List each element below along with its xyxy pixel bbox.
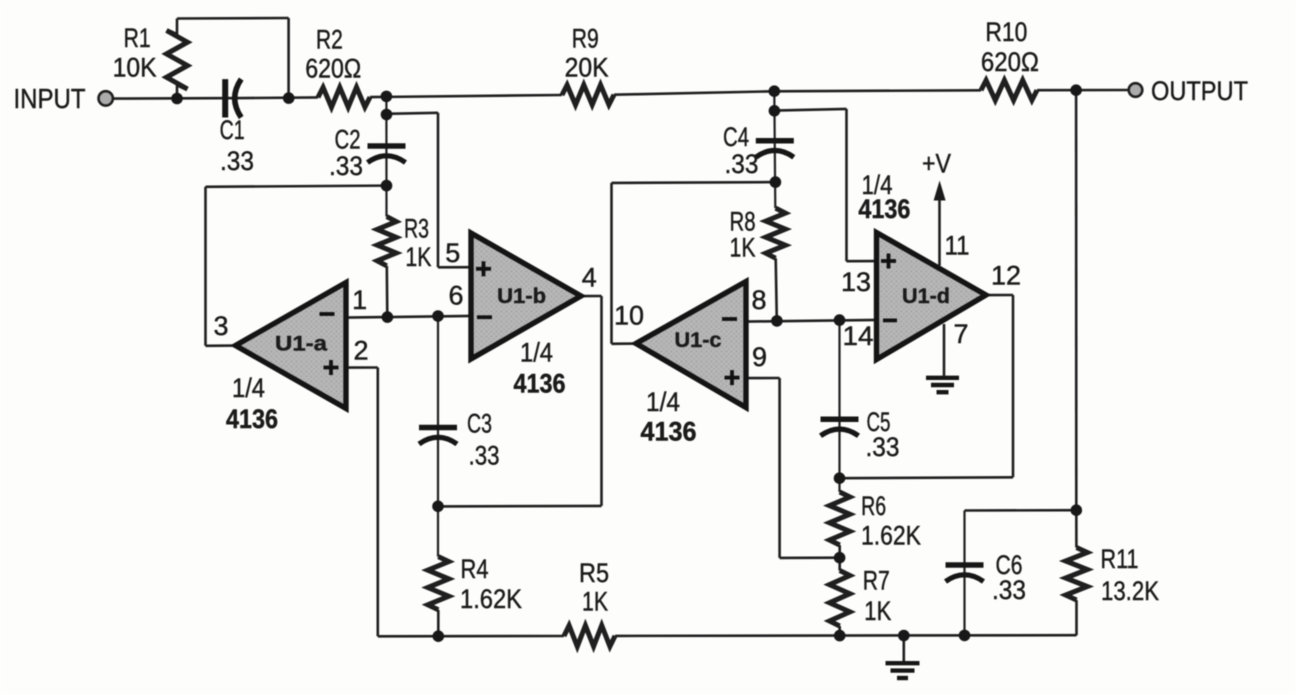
svg-text:4136: 4136 — [514, 369, 566, 399]
svg-text:.33: .33 — [992, 575, 1026, 605]
svg-text:R2: R2 — [316, 24, 343, 54]
svg-text:.33: .33 — [866, 432, 900, 462]
svg-text:1K: 1K — [730, 233, 756, 263]
svg-text:1K: 1K — [405, 242, 431, 272]
svg-text:.33: .33 — [469, 441, 500, 471]
svg-text:+V: +V — [922, 149, 951, 179]
svg-text:11: 11 — [945, 231, 970, 261]
svg-text:R10: R10 — [985, 17, 1027, 47]
svg-text:R4: R4 — [461, 554, 489, 584]
svg-text:8: 8 — [751, 285, 766, 315]
svg-text:C4: C4 — [723, 122, 749, 152]
svg-text:.33: .33 — [725, 149, 759, 179]
svg-text:7: 7 — [953, 319, 968, 349]
svg-text:5: 5 — [445, 238, 460, 268]
svg-text:20K: 20K — [565, 52, 609, 82]
svg-text:1.62K: 1.62K — [460, 584, 522, 614]
svg-text:1: 1 — [352, 285, 367, 315]
svg-text:C3: C3 — [467, 409, 492, 439]
svg-text:R3: R3 — [404, 213, 429, 243]
svg-text:13: 13 — [841, 267, 871, 297]
svg-text:9: 9 — [752, 342, 767, 372]
svg-text:3: 3 — [213, 311, 228, 341]
svg-text:1K: 1K — [864, 596, 891, 626]
svg-text:12: 12 — [991, 261, 1021, 291]
svg-text:1K: 1K — [582, 587, 608, 617]
svg-text:.33: .33 — [329, 151, 363, 181]
svg-text:R9: R9 — [572, 24, 599, 54]
svg-text:INPUT: INPUT — [14, 83, 86, 114]
svg-text:2: 2 — [353, 336, 368, 366]
svg-text:R5: R5 — [579, 558, 609, 588]
svg-text:4136: 4136 — [226, 404, 278, 434]
svg-text:R1: R1 — [124, 23, 151, 53]
svg-text:10K: 10K — [113, 52, 157, 82]
svg-text:U1-b: U1-b — [497, 284, 546, 308]
svg-text:620Ω: 620Ω — [305, 54, 361, 84]
svg-text:C1: C1 — [220, 115, 245, 145]
svg-text:6: 6 — [448, 280, 463, 310]
svg-text:U1-d: U1-d — [902, 284, 950, 308]
svg-text:10: 10 — [614, 301, 644, 331]
svg-text:4136: 4136 — [858, 194, 910, 224]
svg-text:R11: R11 — [1101, 544, 1139, 574]
svg-text:1.62K: 1.62K — [861, 521, 921, 551]
svg-text:14: 14 — [843, 321, 874, 351]
svg-text:R7: R7 — [863, 566, 890, 596]
svg-text:13.2K: 13.2K — [1101, 576, 1159, 606]
svg-text:.33: .33 — [220, 146, 254, 176]
svg-text:OUTPUT: OUTPUT — [1151, 76, 1248, 106]
svg-text:1/4: 1/4 — [232, 373, 265, 403]
svg-text:U1-a: U1-a — [275, 332, 328, 356]
svg-text:U1-c: U1-c — [675, 328, 722, 352]
svg-text:1/4: 1/4 — [520, 338, 553, 368]
svg-text:620Ω: 620Ω — [981, 47, 1039, 77]
svg-text:4136: 4136 — [641, 417, 697, 447]
svg-text:1/4: 1/4 — [646, 387, 680, 417]
svg-text:C2: C2 — [335, 125, 361, 155]
svg-text:4: 4 — [582, 263, 597, 293]
svg-text:R6: R6 — [861, 491, 886, 521]
